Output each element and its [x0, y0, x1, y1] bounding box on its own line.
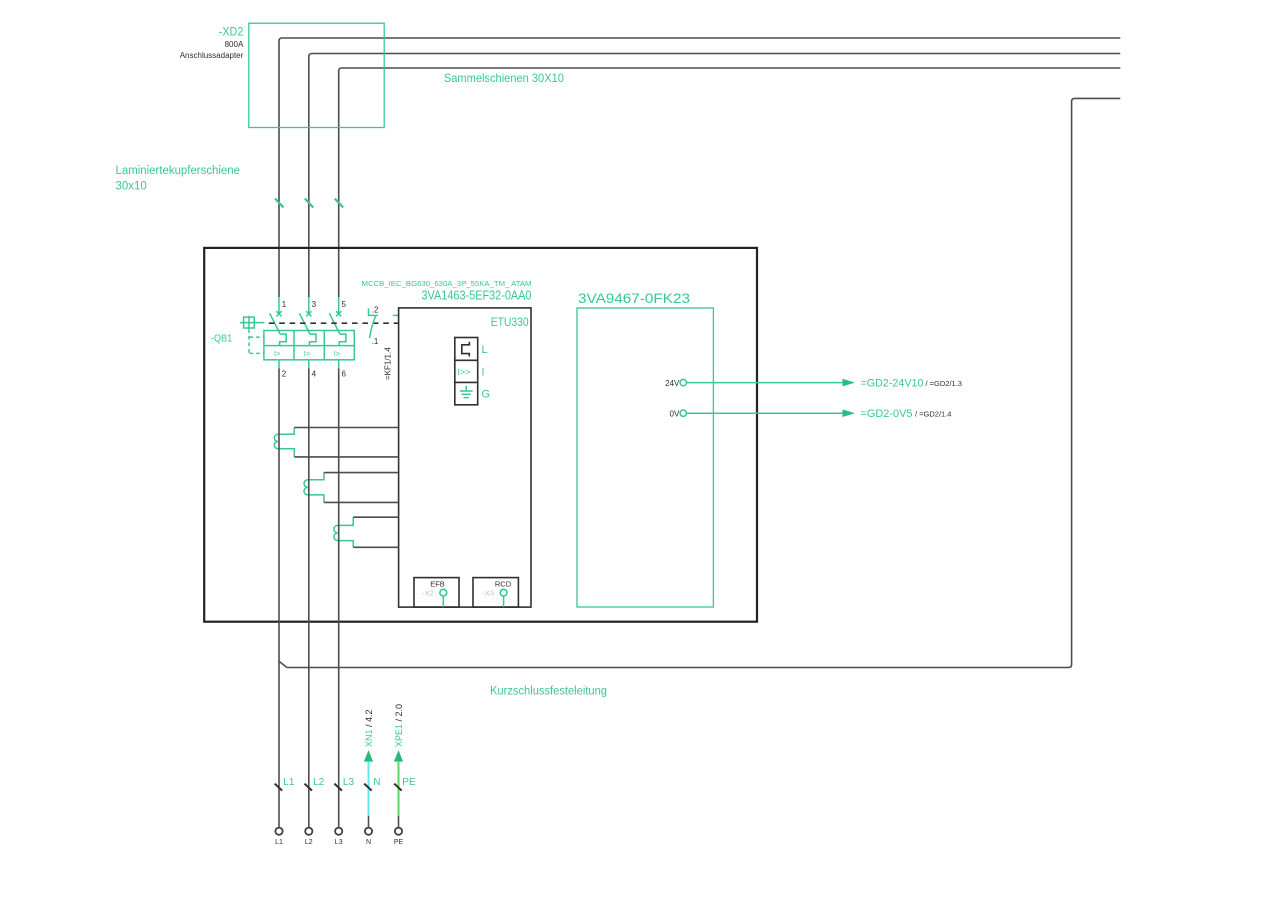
svg-text:L3: L3: [335, 839, 343, 846]
protection stack box: [455, 338, 478, 405]
svg-text:=GD2-0V5: =GD2-0V5: [861, 408, 913, 420]
breaker QB1 pole 3 bottom lead: [338, 360, 340, 369]
breaker QB1 blade pole 2: [299, 313, 310, 334]
thermal release hook pole 1: [280, 334, 287, 346]
CT3 coil: [334, 517, 353, 547]
terminal circle PE: [395, 828, 402, 835]
svg-text:=GD2-24V10: =GD2-24V10: [861, 378, 924, 390]
svg-text:EFB: EFB: [430, 580, 445, 589]
svg-text:800A: 800A: [225, 40, 244, 49]
CT2 secondary wires: [324, 473, 399, 503]
wire PE: [398, 762, 400, 816]
slash L1: [275, 784, 283, 791]
ETU330 box: [399, 308, 531, 607]
thermal release hook pole 2: [309, 334, 316, 346]
RCD box: [473, 578, 518, 608]
svg-text:Anschlussadapter: Anschlussadapter: [180, 51, 244, 60]
svg-text:.2: .2: [372, 305, 379, 314]
wire L1 top bus: [279, 38, 1120, 297]
ground fault release icon G: [460, 386, 473, 398]
svg-text:/ =GD2/1.3: / =GD2/1.3: [926, 379, 962, 388]
svg-text:L: L: [482, 344, 488, 356]
mechanical linkage dashed: [269, 322, 399, 324]
breaker QB1 body: [264, 331, 354, 360]
breaker QB1 pole 2 lead: [308, 297, 310, 314]
manual operator square: [240, 316, 265, 330]
svg-text:I>: I>: [304, 349, 311, 358]
svg-text:N: N: [373, 777, 380, 788]
svg-text:XN1 / 4.2: XN1 / 4.2: [364, 709, 374, 747]
long-time release icon L: [462, 342, 470, 357]
CT1 coil: [274, 428, 294, 457]
wire L2 lower: [308, 369, 310, 828]
svg-text:ETU330: ETU330: [491, 315, 529, 329]
accessory box 3VA9467-0FK23: [577, 308, 713, 607]
slash PE: [394, 784, 402, 791]
conductor slash mark L3: [335, 199, 344, 208]
svg-text:I>: I>: [334, 349, 341, 358]
wire L3 top bus: [339, 68, 1121, 297]
svg-text:30x10: 30x10: [116, 181, 147, 193]
thermal release hook pole 3: [339, 334, 346, 346]
breaker QB1 blade pole 1: [270, 313, 281, 334]
svg-text:0V: 0V: [670, 409, 680, 418]
breaker QB1 pole 1 lead: [278, 297, 280, 314]
wire 0V: [687, 412, 843, 414]
terminal box XD2: [249, 23, 384, 127]
wire N: [368, 762, 370, 816]
wire L1 lower: [278, 369, 280, 828]
svg-text:-X2: -X2: [422, 589, 434, 598]
svg-text:-QB1: -QB1: [211, 333, 233, 345]
svg-text:=KF1/1.4: =KF1/1.4: [383, 347, 392, 380]
svg-text:Sammelschienen 30X10: Sammelschienen 30X10: [444, 71, 564, 85]
arrow XN1: [364, 750, 373, 762]
svg-text:G: G: [482, 389, 491, 401]
breaker QB1 contact cross pole 2: [306, 311, 311, 316]
svg-text:PE: PE: [402, 777, 416, 788]
svg-text:Laminiertekupferschiene: Laminiertekupferschiene: [116, 165, 241, 177]
svg-text:3: 3: [312, 300, 317, 309]
arrow 24V: [843, 379, 856, 387]
CT2 coil: [304, 473, 324, 503]
svg-text:5: 5: [342, 300, 347, 309]
terminal -X3 lead: [503, 596, 505, 607]
terminal 24V circle: [680, 379, 686, 385]
breaker QB1 blade pole 3: [329, 313, 340, 334]
terminal -X2 circle: [440, 589, 447, 596]
terminal circle N: [365, 828, 372, 835]
svg-text:.1: .1: [372, 337, 379, 346]
terminal -X2 lead: [442, 596, 444, 607]
wire 24V: [687, 382, 843, 384]
arrow 0V: [843, 409, 856, 417]
trip linkage dashed green: [249, 329, 264, 353]
svg-text:RCD: RCD: [495, 580, 512, 589]
svg-text:24V: 24V: [665, 379, 680, 388]
wire Kurzschlussfesteleitung: [279, 98, 1120, 667]
breaker QB1 contact cross pole 1: [276, 311, 281, 316]
svg-text:I: I: [482, 366, 485, 378]
wire L3 lower: [338, 369, 340, 828]
EFB box: [414, 578, 459, 608]
svg-text:3VA1463-5EF32-0AA0: 3VA1463-5EF32-0AA0: [422, 289, 532, 303]
svg-text:-XD2: -XD2: [219, 27, 244, 39]
breaker QB1 pole 2 bottom lead: [308, 360, 310, 369]
arrow XPE1: [394, 750, 403, 762]
slash L3: [334, 784, 342, 791]
CT1 secondary wires: [294, 428, 398, 457]
svg-text:N: N: [366, 839, 371, 846]
conductor slash mark L2: [305, 199, 314, 208]
svg-text:L2: L2: [313, 777, 325, 788]
svg-text:L1: L1: [275, 839, 283, 846]
svg-text:1: 1: [282, 300, 287, 309]
svg-text:6: 6: [342, 369, 347, 378]
svg-text:MCCB_IEC_BG630_630A_3P_55KA_TM: MCCB_IEC_BG630_630A_3P_55KA_TM_ ATAM: [362, 279, 532, 288]
svg-text:-X3: -X3: [482, 589, 494, 598]
breaker QB1 contact cross pole 3: [336, 311, 341, 316]
conductor slash mark L1: [275, 199, 284, 208]
wire N stub: [368, 816, 370, 828]
wire PE stub: [398, 816, 400, 828]
wire L2 top bus: [309, 54, 1121, 298]
aux switch KF1 blade: [370, 316, 376, 338]
terminal -X3 circle: [500, 589, 507, 596]
terminal circle L3: [335, 828, 342, 835]
aux switch lead into ETU: [393, 314, 399, 316]
svg-text:2: 2: [282, 369, 287, 378]
svg-text:3VA9467-0FK23: 3VA9467-0FK23: [578, 290, 690, 306]
svg-text:I>: I>: [274, 349, 281, 358]
svg-text:XPE1 / 2.0: XPE1 / 2.0: [394, 704, 404, 747]
terminal circle L2: [305, 828, 312, 835]
terminal circle L1: [275, 828, 282, 835]
CT3 secondary wires: [353, 517, 398, 547]
enclosure box: [204, 248, 757, 622]
svg-text:Kurzschlussfesteleitung: Kurzschlussfesteleitung: [490, 686, 607, 698]
terminal 0V circle: [680, 410, 686, 416]
svg-text:4: 4: [312, 369, 317, 378]
aux switch KF1 fixed contact: [369, 308, 378, 315]
svg-text:L1: L1: [283, 777, 295, 788]
svg-text:/ =GD2/1.4: / =GD2/1.4: [915, 410, 951, 419]
breaker QB1 pole 1 bottom lead: [278, 360, 280, 369]
slash N: [364, 784, 372, 791]
svg-text:PE: PE: [394, 839, 404, 846]
breaker QB1 pole 3 lead: [338, 297, 340, 314]
slash L2: [305, 784, 313, 791]
svg-text:L3: L3: [343, 777, 355, 788]
svg-text:L2: L2: [305, 839, 313, 846]
svg-text:I>>: I>>: [458, 367, 471, 377]
